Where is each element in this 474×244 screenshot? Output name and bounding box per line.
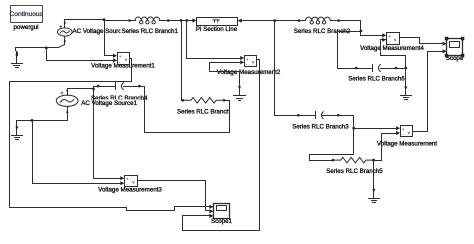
- pin arrow into Pi right: [238, 19, 242, 23]
- wire node A down to VM1 plus: [105, 20, 114, 56]
- resistor Series RLC Branch: [182, 98, 226, 104]
- wire AC1 top to node I: [68, 88, 94, 90]
- svg-text:Voltage Measurement2: Voltage Measurement2: [217, 69, 281, 76]
- wire Pi to Branch2: [242, 20, 299, 22]
- Pi Section Line block: [197, 18, 238, 26]
- ground G4: [369, 161, 380, 203]
- wire AC top to junction: [65, 19, 105, 21]
- wire node B2 to VM2 plus: [187, 21, 240, 59]
- node junction B2: [185, 19, 188, 22]
- svg-text:Voltage Measurement3: Voltage Measurement3: [98, 187, 162, 194]
- wire AC bottom to ground1: [16, 45, 65, 55]
- svg-text:Series RLC Branch5: Series RLC Branch5: [326, 168, 383, 175]
- svg-text:AC Voltage Source: AC Voltage Source: [73, 28, 126, 35]
- wire AC1 bottom to ground G2: [17, 114, 68, 123]
- node junction F: [45, 47, 48, 50]
- svg-text:Series RLC Branch6: Series RLC Branch6: [348, 76, 405, 83]
- wire VM3 out to Scope1 in2: [138, 181, 210, 211]
- wire VM4 out to Scope in1: [400, 38, 444, 44]
- pin arrow into Pi left: [192, 18, 196, 22]
- node junction J: [31, 119, 34, 122]
- wire node I down to VM3 plus: [94, 89, 121, 179]
- wire Scope in2 from VM: [413, 52, 444, 132]
- wire Branch1 to Pi Section Line: [169, 20, 193, 22]
- wire Branch2 to VM4 plus: [339, 21, 383, 36]
- svg-text:Series RLC Branch1: Series RLC Branch1: [121, 28, 178, 35]
- svg-text:Series RLC Branch3: Series RLC Branch3: [292, 124, 349, 131]
- svg-text:Voltage Measurement4: Voltage Measurement4: [360, 45, 424, 52]
- capacitor Series RLC Branch4: [97, 83, 141, 90]
- svg-text:Series RLC Branch: Series RLC Branch: [177, 109, 231, 116]
- wire junction C down to Branch3: [275, 21, 299, 116]
- ground G5: [234, 86, 246, 101]
- wire Branch4 right to resistor Branch: [140, 87, 230, 133]
- AC Voltage Source1 U2: [56, 89, 78, 114]
- powergui block: [10, 6, 44, 23]
- AC Voltage Source1 label: [81, 99, 141, 105]
- wire Branch6 right to node E: [396, 68, 406, 70]
- svg-text:Continuous: Continuous: [10, 11, 44, 18]
- wire VM1 out long to Scope1 in1: [10, 59, 210, 211]
- wire VM2 minus to ground G5: [210, 63, 240, 86]
- capacitor Series RLC Branch6: [355, 65, 397, 72]
- node junction G: [352, 127, 355, 130]
- svg-text:+: +: [119, 55, 122, 60]
- wire node J down to VM3 minus: [33, 121, 121, 184]
- node junction D: [360, 30, 363, 33]
- Scope block (selected): [443, 37, 465, 58]
- wire node I up to Branch4: [94, 87, 99, 89]
- AC Voltage Source U1: [58, 20, 73, 45]
- svg-text:powergui: powergui: [13, 24, 38, 31]
- capacitor Series RLC Branch3: [297, 112, 339, 119]
- wire junction G down to Branch5 left: [310, 129, 354, 161]
- wire junction to Branch1: [105, 20, 130, 22]
- voltage measurement VM1: [113, 53, 130, 66]
- voltage measurement VM3: [120, 176, 137, 188]
- ground G3: [401, 69, 412, 100]
- inductor Series RLC Branch1: [128, 17, 169, 24]
- labels layer: [13, 24, 463, 225]
- wire Branch5 right to VM minus: [374, 134, 398, 161]
- node junction E: [404, 67, 407, 70]
- node junction I: [92, 88, 95, 91]
- ground G1: [12, 53, 23, 68]
- svg-text:AC Voltage Source1: AC Voltage Source1: [81, 100, 137, 107]
- wire junction D to Branch6: [338, 32, 361, 69]
- svg-text:Voltage Measurement: Voltage Measurement: [377, 141, 437, 148]
- voltage measurement VM (right): [396, 126, 412, 139]
- voltage measurement VM2: [240, 56, 256, 68]
- svg-text:+: +: [388, 35, 391, 40]
- node junction B1: [180, 19, 183, 22]
- node junction C: [273, 19, 276, 22]
- wire Branch3 right to VM plus and resistor loop: [339, 116, 398, 129]
- voltage measurement VM4: [382, 33, 399, 46]
- node junction H: [372, 159, 375, 162]
- node junction A: [103, 18, 106, 21]
- inductor Series RLC Branch2: [298, 17, 340, 24]
- wire ground1 node to VM1 minus: [47, 48, 114, 61]
- wire Branch left up to node B1: [182, 21, 184, 101]
- svg-text:Pi Section Line: Pi Section Line: [196, 26, 238, 33]
- Series RLC Branch1 label: [121, 27, 180, 35]
- ground G2: [12, 121, 23, 140]
- Scope1 block: [209, 204, 229, 219]
- wire VM4 minus from node E: [381, 40, 406, 69]
- resistor Series RLC Branch5: [332, 157, 375, 163]
- wire VM2 out to Scope1 in3 (long): [183, 60, 260, 231]
